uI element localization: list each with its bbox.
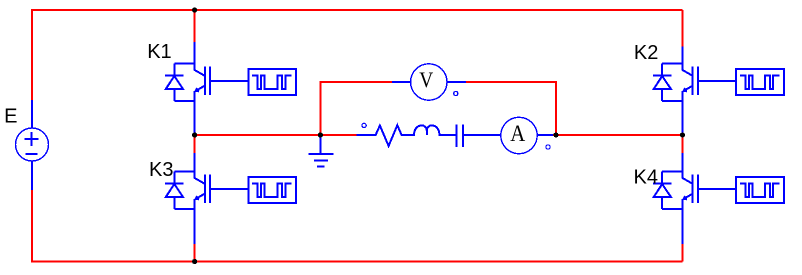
svg-text:K4: K4	[634, 167, 658, 189]
svg-text:A: A	[510, 121, 525, 146]
svg-text:E: E	[4, 105, 17, 127]
svg-text:V: V	[419, 67, 433, 92]
svg-text:K2: K2	[634, 42, 658, 64]
svg-text:K3: K3	[149, 159, 173, 181]
svg-text:K1: K1	[147, 41, 171, 63]
